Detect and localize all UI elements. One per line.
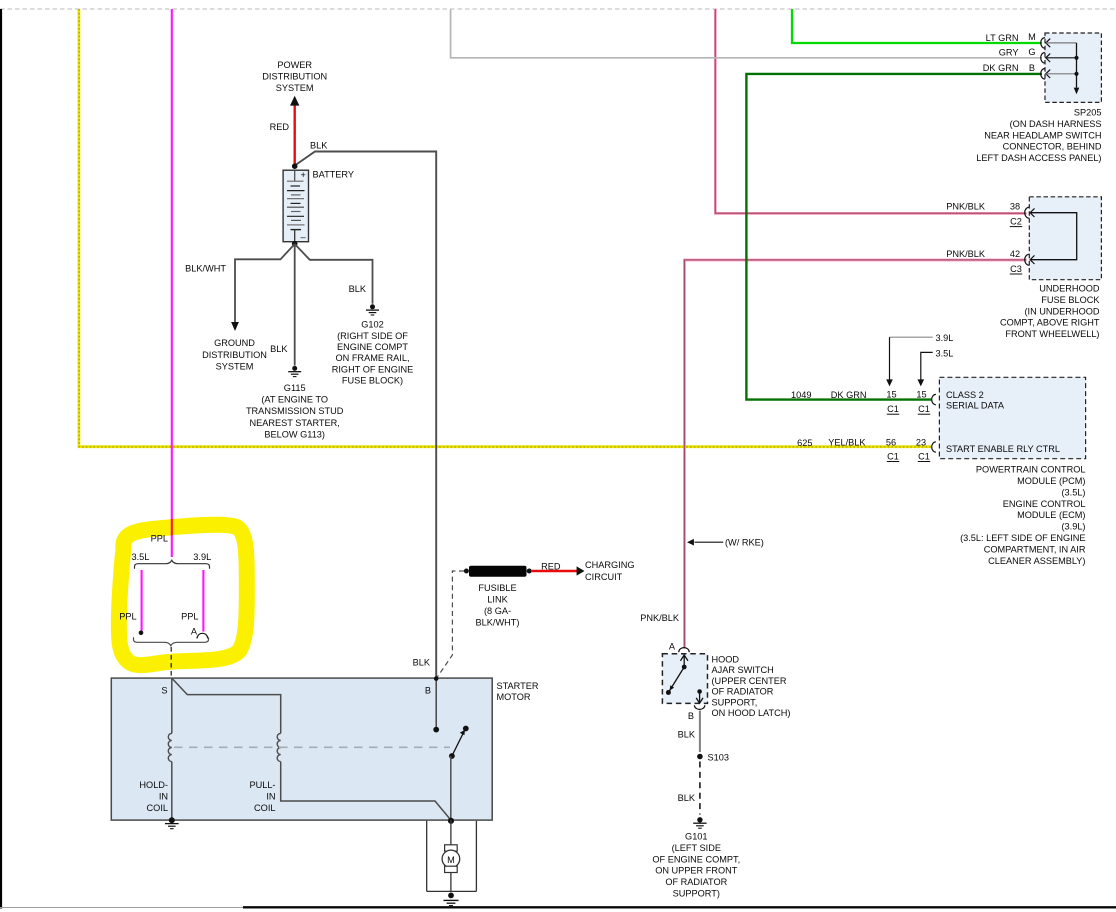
wire BLK battery positive to starter B terminal [296,141,437,730]
wire RED fusible link to charging circuit [531,560,635,582]
wire dashed fusible link to B terminal [413,571,464,679]
svg-text:23: 23 [916,438,926,448]
svg-text:+: + [301,170,306,180]
borders (frame) [0,8,1116,10]
svg-text:PNK/BLK: PNK/BLK [640,613,680,623]
hold-in coil [139,733,171,813]
wire RED battery to power distribution [262,60,327,166]
PPL split (3.5L / 3.9L) with braces [119,533,211,677]
wire BLK battery negative to ground G102 [295,244,373,304]
ground G101 [652,817,740,898]
callout 3.9L arrow to pin 15 [886,333,953,386]
svg-text:BLK: BLK [349,284,367,294]
svg-text:CHARGING: CHARGING [585,560,635,570]
svg-text:(W/ RKE): (W/ RKE) [725,538,764,548]
svg-text:POWER: POWER [277,60,312,70]
wire BLK hood switch to S103 [678,711,700,753]
wire YEL/BLK 625 (left loop to PCM pin 23) [79,9,932,447]
svg-text:ENGINE COMPT: ENGINE COMPT [337,342,408,352]
wire pull-in coil to motor junction [281,762,451,820]
svg-text:FUSE BLOCK): FUSE BLOCK) [342,375,403,385]
ground G102 [332,304,414,385]
svg-text:56: 56 [886,438,896,448]
svg-text:BLK: BLK [678,793,696,803]
wire hold-in coil to ground [171,762,173,820]
svg-text:G115: G115 [284,383,306,393]
svg-text:OF RADIATOR: OF RADIATOR [712,687,774,697]
svg-text:MOTOR: MOTOR [497,692,531,702]
svg-text:YEL/BLK: YEL/BLK [828,438,866,448]
svg-text:S: S [161,685,167,695]
svg-text:G101: G101 [685,832,707,842]
svg-text:AJAR SWITCH: AJAR SWITCH [712,665,774,675]
svg-text:MODULE (ECM): MODULE (ECM) [1017,510,1085,520]
wire B terminal into box [435,678,437,729]
svg-text:SUPPORT): SUPPORT) [673,889,720,899]
svg-text:SUPPORT,: SUPPORT, [712,697,758,707]
wire PNK/BLK from C3 pin 42 down to hood ajar switch [684,260,1026,649]
splice S103 [697,753,729,763]
svg-text:DISTRIBUTION: DISTRIBUTION [202,350,267,360]
svg-text:COMPARTMENT, IN AIR: COMPARTMENT, IN AIR [984,544,1086,554]
svg-text:CONNECTOR, BEHIND: CONNECTOR, BEHIND [1003,142,1102,152]
PCM / ECM connector [791,377,1086,566]
svg-text:BLK: BLK [270,344,288,354]
svg-text:BATTERY: BATTERY [313,170,355,180]
ground at hold-in coil [165,817,179,828]
svg-text:UNDERHOOD: UNDERHOOD [1039,284,1100,294]
svg-text:625: 625 [797,438,812,448]
wire LT GRN to SP205 pin M [792,9,1042,43]
junction at B entry [434,676,439,681]
svg-text:C2: C2 [1010,216,1022,226]
svg-text:START ENABLE RLY CTRL: START ENABLE RLY CTRL [946,444,1060,454]
solenoid switch contacts [433,726,468,824]
svg-text:BLK/WHT: BLK/WHT [185,263,226,273]
callout 3.5L arrow to pin 15 [918,348,954,386]
svg-text:–: – [301,232,307,242]
svg-text:COIL: COIL [254,803,275,813]
svg-text:GRY: GRY [999,48,1019,58]
svg-text:M: M [447,855,455,865]
svg-text:ENGINE CONTROL: ENGINE CONTROL [1003,499,1086,509]
annotation: yellow highlighter ring [119,525,247,665]
svg-text:NEAREST STARTER,: NEAREST STARTER, [250,418,340,428]
motor housing [427,821,477,892]
svg-text:3.5L: 3.5L [936,348,954,358]
wire (W/ RKE) arrow [687,538,764,548]
wire DK GRN 1049 from SP205 pin B to PCM pin 15 [746,74,1042,400]
svg-text:(AT ENGINE TO: (AT ENGINE TO [261,395,328,405]
svg-text:G102: G102 [361,320,383,330]
svg-text:SYSTEM: SYSTEM [216,361,254,371]
svg-text:LT GRN: LT GRN [986,33,1019,43]
svg-text:1049: 1049 [791,390,811,400]
svg-text:42: 42 [1010,249,1020,259]
svg-text:15: 15 [916,390,926,400]
svg-text:(UPPER CENTER: (UPPER CENTER [712,676,787,686]
svg-text:C1: C1 [918,451,930,461]
svg-text:(3.9L): (3.9L) [1061,522,1085,532]
svg-text:G: G [1028,47,1035,57]
wire S terminal to coils [172,678,281,733]
svg-text:B: B [425,685,431,695]
wire BLK S103 to G101 (dashed) [678,762,700,815]
connector underhood fuse block C2/C3 [946,197,1101,339]
ground G115 [246,366,344,440]
ground at motor [444,893,459,906]
wire BLK/WHT battery negative to ground distribution [185,244,295,371]
svg-text:BLK/WHT): BLK/WHT) [476,618,520,628]
svg-text:C1: C1 [918,404,930,414]
svg-text:(IN UNDERHOOD: (IN UNDERHOOD [1024,306,1099,316]
mechanical linkage (dashed) [174,746,450,748]
svg-text:(3.5L: LEFT SIDE OF ENGINE: (3.5L: LEFT SIDE OF ENGINE [960,533,1085,543]
svg-text:COMPT, ABOVE RIGHT: COMPT, ABOVE RIGHT [1000,318,1100,328]
svg-text:ON FRAME RAIL,: ON FRAME RAIL, [335,353,409,363]
svg-text:FUSE BLOCK: FUSE BLOCK [1041,295,1100,305]
svg-text:BELOW G113): BELOW G113) [264,429,325,439]
svg-text:B: B [1029,63,1035,73]
svg-text:SERIAL DATA: SERIAL DATA [946,400,1005,410]
svg-text:HOLD-: HOLD- [139,780,168,790]
wire PNK/BLK to C2 pin 38 [715,9,1026,213]
svg-text:BLK: BLK [678,730,696,740]
svg-text:(8 GA-: (8 GA- [484,606,511,616]
svg-text:C1: C1 [887,451,899,461]
svg-text:3.5L: 3.5L [132,552,150,562]
svg-text:TRANSMISSION STUD: TRANSMISSION STUD [246,406,344,416]
svg-text:HOOD: HOOD [712,654,740,664]
wire PPL main vertical [171,9,173,557]
pull-in coil [249,733,280,813]
svg-text:BLK: BLK [413,658,431,668]
svg-text:OF RADIATOR: OF RADIATOR [665,877,727,887]
svg-text:LEFT DASH ACCESS PANEL): LEFT DASH ACCESS PANEL) [976,153,1101,163]
svg-text:15: 15 [886,390,896,400]
svg-text:LINK: LINK [487,595,508,605]
svg-text:(RIGHT SIDE OF: (RIGHT SIDE OF [337,331,408,341]
svg-text:(LEFT SIDE: (LEFT SIDE [672,843,721,853]
svg-text:(3.5L): (3.5L) [1061,487,1085,497]
svg-text:POWERTRAIN CONTROL: POWERTRAIN CONTROL [976,465,1086,475]
svg-text:PNK/BLK: PNK/BLK [946,202,986,212]
svg-text:C3: C3 [1010,264,1022,274]
svg-text:IN: IN [266,792,275,802]
svg-text:SP205: SP205 [1074,108,1102,118]
svg-text:B: B [688,711,694,721]
motor M [442,820,460,891]
svg-text:3.9L: 3.9L [936,333,954,343]
svg-text:MODULE (PCM): MODULE (PCM) [1017,476,1085,486]
svg-text:PULL-: PULL- [249,780,275,790]
svg-text:DK GRN: DK GRN [983,63,1019,73]
svg-text:A: A [191,627,198,637]
svg-text:ON UPPER FRONT: ON UPPER FRONT [655,866,738,876]
hood ajar switch [662,641,790,721]
wire BLK battery negative to ground G115 [270,244,295,366]
svg-text:FRONT WHEELWELL): FRONT WHEELWELL) [1005,329,1099,339]
svg-text:38: 38 [1010,202,1020,212]
svg-text:ON HOOD LATCH): ON HOOD LATCH) [712,708,791,718]
svg-text:OF ENGINE COMPT,: OF ENGINE COMPT, [652,854,740,864]
svg-text:GROUND: GROUND [214,338,255,348]
svg-text:STARTER: STARTER [497,681,539,691]
svg-text:PPL: PPL [181,611,198,621]
svg-text:3.9L: 3.9L [193,552,211,562]
svg-text:SYSTEM: SYSTEM [276,83,314,93]
svg-text:CLEANER ASSEMBLY): CLEANER ASSEMBLY) [988,556,1085,566]
svg-text:RED: RED [270,122,290,132]
svg-text:S103: S103 [708,753,729,763]
svg-text:PNK/BLK: PNK/BLK [946,249,986,259]
svg-text:BLK: BLK [310,141,328,151]
connector SP205 [976,32,1102,163]
svg-text:A: A [669,641,676,651]
svg-text:NEAR HEADLAMP SWITCH: NEAR HEADLAMP SWITCH [984,130,1101,140]
wire GRY to SP205 pin G [451,10,1042,58]
svg-text:IN: IN [159,792,168,802]
fusible link [464,566,532,628]
starter motor box [111,678,539,820]
svg-text:CIRCUIT: CIRCUIT [585,572,623,582]
svg-text:COIL: COIL [147,803,168,813]
svg-text:CLASS 2: CLASS 2 [946,390,984,400]
svg-text:FUSIBLE: FUSIBLE [478,583,516,593]
svg-text:DK GRN: DK GRN [831,390,867,400]
svg-text:DISTRIBUTION: DISTRIBUTION [262,71,327,81]
battery [283,163,354,246]
svg-text:(ON DASH HARNESS: (ON DASH HARNESS [1010,119,1102,129]
svg-text:C1: C1 [887,404,899,414]
svg-text:RIGHT OF ENGINE: RIGHT OF ENGINE [332,364,414,374]
svg-text:RED: RED [541,561,561,571]
svg-text:M: M [1028,32,1036,42]
